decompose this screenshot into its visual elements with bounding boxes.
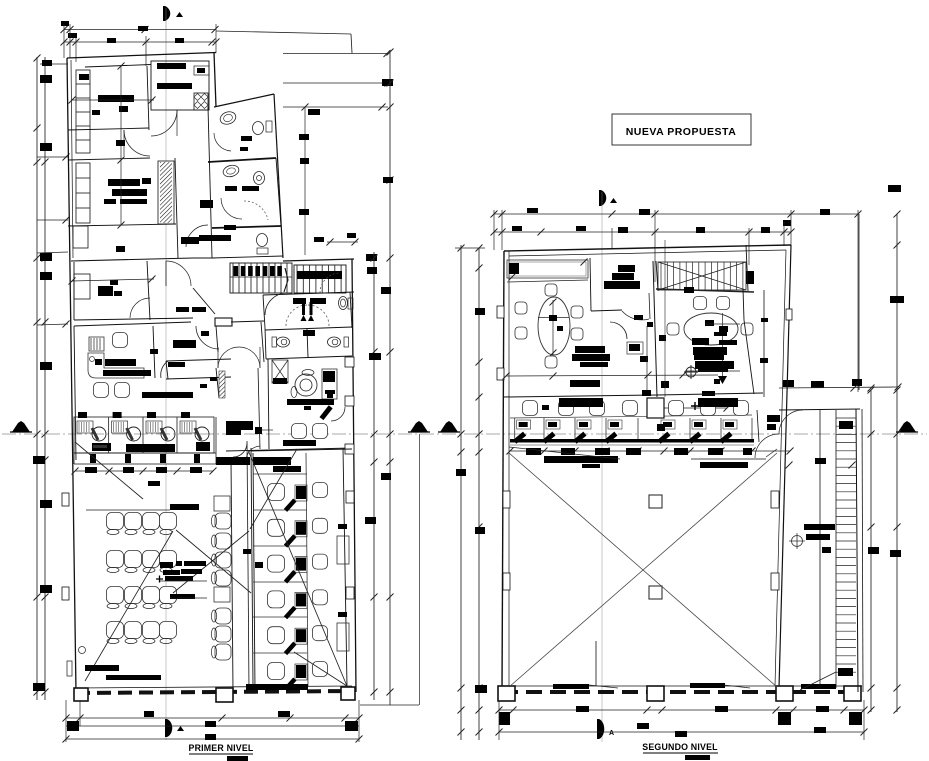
counter dim line bbox=[507, 280, 588, 282]
meeting room door bbox=[649, 293, 650, 319]
office area walls bbox=[74, 322, 191, 326]
bedroom2 hatched closet strip bbox=[158, 161, 174, 224]
svg-text:NUEVA PROPUESTA: NUEVA PROPUESTA bbox=[626, 126, 737, 138]
teacher bottom left items bbox=[79, 647, 86, 654]
corridor walls right of classroom bbox=[247, 441, 249, 691]
left margin dim text blobs bbox=[42, 60, 52, 66]
entry stair right part bbox=[294, 265, 346, 293]
hall vertical mark bbox=[595, 641, 597, 686]
apartment bottom closet bbox=[73, 226, 88, 248]
left plan top dimension line 1 bbox=[64, 29, 216, 31]
entry stair treads bbox=[230, 263, 292, 293]
svg-text:A: A bbox=[609, 730, 614, 737]
bath1 sink bbox=[218, 110, 237, 127]
hatch strip corridor bbox=[219, 371, 225, 398]
double door arcs center bbox=[218, 347, 239, 368]
right plan bottom dims bbox=[499, 709, 864, 711]
corridor chairs right of partition bbox=[313, 483, 328, 498]
survey cone mid-right bbox=[440, 421, 458, 432]
right cubicle partition 1 bbox=[253, 473, 307, 475]
office desk front bar bbox=[287, 399, 334, 405]
divider small blobs bbox=[634, 315, 643, 320]
rp partition right of row bbox=[757, 410, 759, 442]
classroom chairs grid bbox=[107, 513, 124, 530]
bath1 door arc bbox=[214, 133, 231, 151]
section arrow top-left plan bbox=[163, 6, 170, 21]
stair bottom leader bbox=[800, 672, 836, 690]
left plan top extension lines bbox=[63, 24, 65, 58]
centerline axis y=434 bbox=[2, 433, 927, 435]
right plan top dim line2 bbox=[494, 231, 791, 233]
svg-text:SEGUNDO NIVEL: SEGUNDO NIVEL bbox=[642, 742, 718, 752]
corridor right wall bbox=[261, 322, 264, 362]
door arc corridor top bbox=[233, 443, 247, 457]
rp chairs row bbox=[523, 401, 538, 416]
inner dim vertical x665 bbox=[664, 240, 666, 397]
section arrow top-right plan bbox=[599, 190, 606, 206]
section arrow bottom-right plan bbox=[597, 719, 604, 739]
stove with burners bbox=[194, 93, 208, 110]
meeting room right wall bbox=[590, 258, 591, 311]
left plan bottom dims bbox=[66, 717, 359, 719]
bath1 toilet bbox=[253, 122, 264, 135]
survey cone far right bbox=[898, 421, 916, 432]
right plan outer walls bbox=[504, 245, 791, 251]
wc3 text and fixtures bbox=[224, 225, 236, 230]
corridor top walls bbox=[779, 409, 860, 410]
left oval table bbox=[538, 297, 570, 355]
cubicle dim line bbox=[75, 470, 213, 472]
title box NUEVA PROPUESTA bbox=[612, 114, 751, 145]
right column cabinets bbox=[337, 536, 349, 564]
rp cubicle dim line bbox=[510, 450, 790, 452]
office bottom wall bbox=[226, 448, 352, 451]
office round table bbox=[295, 374, 317, 396]
cubicle desks black bars bbox=[92, 443, 111, 451]
bath divider walls bbox=[208, 107, 212, 258]
left plan outer walls bbox=[67, 53, 216, 59]
door hinge marks bbox=[302, 302, 305, 315]
classroom right wall bbox=[231, 460, 233, 691]
right margin dim blobs left plan bbox=[367, 267, 377, 274]
rp corridor dim marks bbox=[786, 462, 793, 469]
corridor door arc to bath bbox=[186, 225, 208, 247]
left plan top dimension line 2 bbox=[64, 41, 216, 43]
right oval table bbox=[684, 313, 738, 345]
office chairs pair bbox=[292, 424, 307, 439]
cubicle row outline bbox=[74, 417, 214, 453]
right room chairs top bbox=[684, 287, 694, 293]
classroom right chair column bbox=[215, 513, 231, 529]
hall door arcs bbox=[124, 130, 150, 156]
outer right wall bbox=[856, 409, 858, 692]
office pen diagonal bbox=[319, 405, 332, 420]
office rounded corner bbox=[331, 407, 345, 421]
section line right plan bbox=[601, 192, 603, 742]
rp right text and cross bbox=[804, 524, 835, 530]
corridor door arc upper bbox=[166, 261, 191, 286]
hall cross diagonal 1 bbox=[509, 453, 777, 687]
office mid text bar bbox=[142, 392, 193, 398]
bedroom1 closet bbox=[76, 70, 90, 153]
bath2 toilet bbox=[254, 172, 265, 185]
section line left plan bbox=[165, 8, 167, 84]
office text bbox=[283, 440, 316, 446]
bottom desk bar right column bbox=[246, 684, 308, 690]
right plan extension verticals top bbox=[493, 210, 495, 250]
left margin arrow lines bbox=[37, 156, 68, 158]
room label text bbox=[618, 265, 635, 272]
kitchen bbox=[151, 61, 209, 110]
rp cubicle monitors and keyboards bbox=[517, 420, 531, 429]
stair right plan bbox=[658, 262, 746, 290]
column at wall end bbox=[215, 318, 232, 326]
wc left toilet bbox=[277, 337, 290, 347]
bath1 text bbox=[241, 136, 252, 141]
hall bottom leader lines bbox=[589, 685, 618, 688]
wc band walls bbox=[265, 327, 352, 330]
office left wall and corridor wall bbox=[268, 359, 269, 449]
rp stair ladder bbox=[836, 417, 856, 419]
right cubicle partition 2 bbox=[253, 509, 307, 511]
stair dotted arc bbox=[320, 273, 340, 293]
svg-text:PRIMER NIVEL: PRIMER NIVEL bbox=[189, 743, 254, 753]
right plan top dim line1 bbox=[494, 213, 858, 215]
right cubicle furniture 6 bbox=[268, 484, 285, 501]
corridor walls center bbox=[216, 326, 218, 352]
cubicle 1 bbox=[73, 417, 75, 453]
survey cone far left bbox=[12, 421, 30, 432]
cubicle 3 bbox=[142, 417, 144, 453]
right wall pilasters left plan bbox=[345, 357, 354, 367]
cubicle 4 bbox=[176, 417, 178, 453]
small room walls mid bbox=[166, 359, 231, 361]
right wall pilasters bbox=[786, 309, 792, 320]
vestibule double dotted doors bbox=[286, 305, 307, 326]
top-right extension dims bbox=[216, 31, 351, 34]
diagonal wall by stairs bbox=[193, 288, 215, 314]
right column diagonals bbox=[248, 450, 347, 686]
classroom center text bbox=[160, 562, 173, 568]
right room edge wall bbox=[763, 290, 765, 397]
door arc small room bbox=[161, 361, 168, 378]
left plan bottom wall dashed thick bbox=[76, 691, 352, 693]
bath2 door arcs bbox=[221, 198, 242, 219]
right wall pilasters lower bbox=[346, 491, 354, 503]
vestibule right sink bbox=[339, 297, 348, 310]
top desk bars bbox=[216, 457, 250, 465]
entry stair arrow bbox=[284, 268, 288, 292]
rp column box in row bbox=[647, 398, 664, 418]
bottom columns right plan bbox=[498, 686, 515, 701]
wc right toilet bbox=[328, 337, 341, 347]
wall below meeting room bbox=[504, 395, 657, 397]
cubicle 2 bbox=[108, 417, 110, 453]
vestibule door arc bbox=[265, 293, 287, 315]
rp cubicle row band bbox=[514, 418, 516, 440]
vestibule text bars bbox=[293, 298, 306, 304]
office top-right door arc bbox=[196, 326, 219, 349]
right vertical dim lines left plan bbox=[373, 252, 375, 700]
bath2 sink bbox=[222, 164, 240, 179]
bedroom1 text bbox=[98, 95, 134, 102]
cubicle bottom band bbox=[74, 452, 216, 454]
hall cross diagonal 2 bbox=[509, 453, 777, 687]
right cubicle partition 3 bbox=[253, 545, 307, 547]
left room dim line bbox=[506, 375, 718, 376]
right room diagonal wall bbox=[743, 289, 744, 320]
bedroom1 walls bbox=[85, 65, 151, 68]
right plan bottom wall bbox=[502, 690, 862, 694]
bedroom2 closet bbox=[76, 163, 90, 223]
ingreso text blob bbox=[226, 421, 253, 430]
counter top-left bbox=[507, 260, 588, 278]
right cubicle partition 5 bbox=[253, 616, 307, 618]
rp desk front bar bbox=[510, 439, 754, 443]
row1 label bar bbox=[170, 504, 199, 510]
right mid-right dim blobs bbox=[811, 381, 824, 388]
bedroom2 text bbox=[108, 179, 140, 186]
right plan left dim verticals bbox=[460, 245, 462, 740]
hall bottom thresholds bbox=[553, 684, 589, 689]
hall small squares bbox=[649, 495, 662, 508]
vestibule walls bbox=[263, 292, 354, 295]
classroom diagonals bbox=[75, 442, 143, 499]
office corridor door arc bbox=[246, 446, 260, 461]
left wall pilasters bbox=[497, 306, 504, 318]
office closet bbox=[272, 360, 288, 383]
reception desk bbox=[88, 353, 144, 378]
office desk bbox=[322, 369, 337, 399]
survey cone mid-left bbox=[410, 421, 428, 432]
desk near wall bbox=[627, 342, 643, 354]
waiting chairs pair bbox=[94, 383, 109, 398]
right cubicle partition 4 bbox=[253, 581, 307, 583]
top-left room text bbox=[98, 286, 113, 296]
bedroom2 walls bbox=[68, 158, 150, 160]
corridor divider walls bbox=[819, 410, 821, 688]
meeting room text bottom bbox=[575, 346, 605, 353]
right cubicle column walls bbox=[251, 448, 253, 686]
divider below right room bbox=[657, 393, 763, 395]
hall top-right door arc bbox=[755, 434, 779, 458]
left vertical dim lines bbox=[36, 57, 38, 700]
inner dim vertical bbox=[120, 66, 122, 225]
right meeting text mass bbox=[719, 326, 728, 332]
apartment-office divider wall bbox=[71, 258, 193, 261]
right plan right dim verticals bbox=[858, 214, 860, 390]
right cubicle partition 6 bbox=[253, 652, 307, 654]
rp text bars below row bbox=[544, 456, 618, 463]
bottom wall columns bbox=[216, 688, 233, 702]
section arrow bottom-left plan bbox=[165, 719, 172, 737]
stair divider wall bbox=[656, 261, 658, 291]
wc band text bbox=[303, 330, 315, 336]
top-left room closet bbox=[74, 274, 90, 299]
office top-left room walls bbox=[73, 262, 75, 320]
top-left room door arc bbox=[130, 298, 150, 318]
bath2 text bbox=[225, 186, 237, 191]
